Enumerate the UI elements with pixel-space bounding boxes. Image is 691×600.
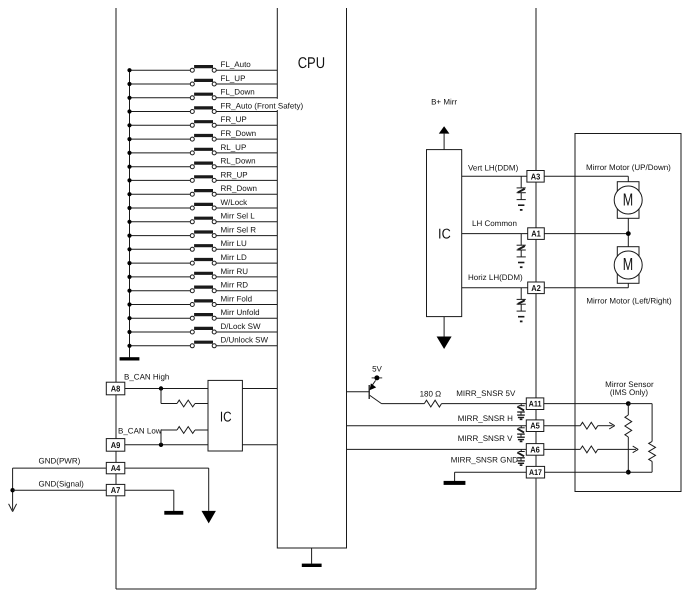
wire A3 to motor 1 — [544, 176, 628, 181]
twist symbol (A11) — [517, 404, 525, 420]
IC U2 (CAN transceiver) box — [208, 380, 242, 451]
svg-text:Vert LH(DDM): Vert LH(DDM) — [468, 163, 519, 172]
junction bus-RL_Down — [127, 165, 131, 169]
svg-text:FR_UP: FR_UP — [221, 115, 247, 124]
svg-text:A7: A7 — [111, 485, 121, 495]
wire Mirr RU row — [130, 276, 278, 278]
module box (DDM) left edge — [115, 8, 117, 589]
svg-text:MIRR_SNSR 5V: MIRR_SNSR 5V — [456, 389, 516, 398]
svg-text:FL_UP: FL_UP — [221, 74, 246, 83]
wire A6 into sensor — [544, 448, 581, 450]
svg-text:A1: A1 — [531, 229, 541, 239]
junction bus-FL_UP — [127, 82, 131, 86]
junction bus-Mirr Unfold — [127, 316, 131, 320]
wire FL_Down row — [130, 97, 278, 99]
junction bus-Mirr Sel L — [127, 220, 131, 224]
connector pin A6 — [526, 444, 544, 456]
wire IC to A3 (Vert LH) — [462, 175, 527, 177]
switch FR_Down — [190, 136, 216, 142]
junction bus-FR_Auto (Front Safety) — [127, 109, 131, 113]
wire A2 to motor 2 — [544, 283, 628, 288]
module box (DDM) right edge — [535, 8, 537, 589]
switch FL_Down — [190, 94, 216, 100]
svg-text:Mirr Unfold: Mirr Unfold — [221, 308, 260, 317]
wire RR_Down row — [130, 193, 278, 195]
wire branch to resistor (high) — [161, 389, 208, 404]
wire Mirr Sel L row — [130, 221, 278, 223]
junction bus-W/Lock — [127, 206, 131, 210]
svg-text:Mirr RU: Mirr RU — [221, 267, 249, 276]
wire A17 to sensor ground — [455, 472, 527, 481]
svg-text:A11: A11 — [529, 400, 542, 409]
svg-text:A9: A9 — [111, 440, 121, 450]
svg-text:A3: A3 — [531, 171, 541, 181]
potentiometer R-V (vertical) — [625, 404, 632, 473]
svg-text:M: M — [623, 254, 633, 274]
switch bus wire (left common) — [129, 70, 131, 357]
wire sensor top branch — [628, 404, 652, 442]
wire A5 into sensor — [544, 425, 581, 427]
svg-text:Mirr LD: Mirr LD — [221, 253, 247, 262]
svg-text:CPU: CPU — [298, 55, 325, 72]
wire RL_UP row — [130, 152, 278, 154]
svg-text:W/Lock: W/Lock — [221, 198, 249, 207]
wire FR_UP row — [130, 124, 278, 126]
wire IC to CPU (high) — [242, 388, 277, 390]
wire CPU to A5 (MIRR_SNSR H) — [347, 425, 527, 427]
wire CPU to 5V switch — [347, 391, 370, 393]
junction bus-D/Unlock SW — [127, 344, 131, 348]
svg-text:IC: IC — [438, 226, 451, 242]
CPU U1 box — [277, 8, 346, 548]
svg-text:A2: A2 — [531, 283, 541, 293]
wire D/Lock SW row — [130, 331, 278, 333]
ground symbol (sensor) — [444, 481, 466, 485]
wire Mirr RD row — [130, 290, 278, 292]
switch W/Lock — [190, 204, 216, 210]
svg-text:5V: 5V — [372, 365, 382, 374]
switch RL_Down — [190, 163, 216, 169]
svg-text:Mirr LU: Mirr LU — [221, 239, 247, 248]
wire Mirr LD row — [130, 262, 278, 264]
junction bus-Mirr LD — [127, 261, 131, 265]
svg-text:A17: A17 — [529, 468, 542, 477]
twist symbol (A5) — [517, 426, 525, 442]
switch Mirr RU — [190, 273, 216, 279]
switch Mirr Sel R — [190, 232, 216, 238]
junction B_CAN Low — [159, 443, 163, 447]
switch FR_Auto (Front Safety) — [190, 108, 216, 114]
connector pin A8 — [106, 382, 125, 395]
svg-text:A6: A6 — [530, 444, 540, 454]
svg-text:D/Lock SW: D/Lock SW — [221, 322, 261, 331]
connector pin A11 — [526, 398, 544, 410]
svg-text:FL_Down: FL_Down — [221, 88, 255, 97]
wire IC to A1 (LH Common) — [462, 233, 528, 235]
svg-text:D/Unlock SW: D/Unlock SW — [221, 336, 269, 345]
wire Mirr LU row — [130, 248, 278, 250]
svg-text:180 Ω: 180 Ω — [420, 390, 442, 399]
svg-text:Mirror Motor (UP/Down): Mirror Motor (UP/Down) — [586, 163, 671, 172]
switch Mirr LD — [190, 260, 216, 266]
wire RR_UP row — [130, 179, 278, 181]
ground symbol (CPU) — [302, 564, 322, 567]
junction sensor GND node — [626, 470, 631, 475]
net label FR_Auto (Front Safety) — [276, 99, 304, 110]
switch Mirr Unfold — [190, 315, 216, 321]
connector pin A17 — [526, 466, 544, 478]
wire W/Lock row — [130, 207, 278, 209]
svg-text:IC: IC — [220, 410, 232, 426]
wire IC to A2 (Horiz LH) — [462, 287, 528, 289]
connector pin A2 — [528, 282, 545, 294]
svg-text:B+ Mirr: B+ Mirr — [431, 98, 457, 107]
junction motors common — [626, 231, 631, 236]
wire FR_Down row — [130, 138, 278, 140]
junction bus-RL_UP — [127, 151, 131, 155]
svg-text:(IMS Only): (IMS Only) — [610, 388, 649, 397]
junction left ground rail — [10, 488, 14, 492]
ground symbol (switch bus) — [120, 357, 140, 360]
wire sensor bottom branch — [628, 471, 652, 473]
wiper arrow V — [598, 446, 638, 453]
wire motor1 to motor2 — [627, 218, 629, 246]
junction bus-FL_Down — [127, 96, 131, 100]
connector pin A9 — [106, 439, 125, 452]
svg-text:Mirror Motor (Left/Right): Mirror Motor (Left/Right) — [586, 297, 672, 306]
wire 5V diagonal to sensor supply — [370, 395, 527, 403]
svg-text:MIRR_SNSR GND: MIRR_SNSR GND — [451, 456, 518, 465]
svg-text:RL_Down: RL_Down — [221, 157, 256, 166]
svg-text:RL_UP: RL_UP — [221, 143, 247, 152]
5V tap bar — [368, 385, 370, 399]
svg-text:GND(Signal): GND(Signal) — [39, 480, 85, 489]
wire A7 to left ground rail — [13, 489, 107, 491]
CPU ground lead wire — [311, 548, 313, 564]
resistor 180 ohm — [424, 400, 441, 407]
junction bus-FL_Auto — [127, 68, 131, 72]
ground arrow (left, open) — [9, 504, 17, 512]
wire RL_Down row — [130, 166, 278, 168]
switch FL_Auto — [190, 67, 216, 73]
svg-text:Mirr Fold: Mirr Fold — [221, 294, 253, 303]
svg-text:Horiz LH(DDM): Horiz LH(DDM) — [468, 273, 523, 282]
wire D/Unlock SW row — [130, 345, 278, 347]
svg-text:Mirr RD: Mirr RD — [221, 281, 249, 290]
wire A8 to IC (B_CAN High) — [125, 388, 208, 390]
svg-text:M: M — [623, 190, 633, 210]
power symbol 5V — [370, 365, 383, 391]
svg-text:MIRR_SNSR V: MIRR_SNSR V — [458, 434, 513, 443]
wire Mirr Sel R row — [130, 235, 278, 237]
wire A9 to IC (B_CAN Low) — [125, 444, 208, 446]
junction bus-Mirr Sel R — [127, 234, 131, 238]
twist symbol (A6) — [517, 449, 525, 465]
junction bus-Mirr Fold — [127, 302, 131, 306]
junction bus-FR_Down — [127, 137, 131, 141]
svg-text:A8: A8 — [111, 384, 121, 394]
switch D/Unlock SW — [190, 342, 216, 348]
connector pin A7 — [106, 484, 125, 495]
junction bus-Mirr LU — [127, 247, 131, 251]
junction sensor 5V node — [626, 401, 631, 406]
wire Mirr Unfold row — [130, 317, 278, 319]
chassis ground arrow (filled) — [202, 511, 216, 524]
switch RR_Down — [190, 191, 216, 197]
wire FL_UP row — [130, 83, 278, 85]
junction bus-Mirr RD — [127, 289, 131, 293]
switch FL_UP — [190, 80, 216, 86]
motor M1 (up/down) — [614, 182, 642, 219]
switch FR_UP — [190, 122, 216, 128]
svg-text:FR_Auto (Front Safety): FR_Auto (Front Safety) — [221, 101, 304, 110]
wire A4 to left ground rail — [13, 468, 107, 510]
wire IC to CPU (low) — [242, 444, 277, 446]
module box (DDM) bottom edge — [116, 588, 536, 590]
ground arrow (IC driver, filled) — [437, 317, 452, 349]
twist symbol (Vert LH) — [517, 176, 526, 210]
wire Mirr Fold row — [130, 304, 278, 306]
svg-text:Mirr Sel R: Mirr Sel R — [221, 226, 257, 235]
motor M2 (left/right) — [614, 247, 642, 284]
resistor (CAN high termination) — [177, 400, 195, 407]
mirror assembly box — [575, 134, 681, 492]
ground symbol (signal) — [164, 511, 183, 515]
resistor (H wiper series) — [580, 422, 598, 429]
svg-text:RR_Down: RR_Down — [221, 184, 257, 193]
wire A1 to motor junction — [544, 233, 628, 235]
wire FR_Auto (Front Safety) row — [130, 111, 278, 113]
junction bus-RR_Down — [127, 192, 131, 196]
svg-text:FR_Down: FR_Down — [221, 129, 257, 138]
junction bus-Mirr RU — [127, 275, 131, 279]
power symbol B+ Mirr — [431, 98, 457, 150]
resistor (CAN low termination) — [177, 427, 195, 434]
connector pin A3 — [527, 171, 544, 183]
switch RL_UP — [190, 149, 216, 155]
svg-text:A5: A5 — [530, 421, 540, 431]
connector pin A5 — [526, 420, 544, 432]
wire A4 to chassis ground — [125, 468, 209, 511]
resistor (V wiper series) — [580, 446, 598, 453]
switch Mirr RD — [190, 287, 216, 293]
svg-text:Mirr Sel L: Mirr Sel L — [221, 212, 256, 221]
switch RR_UP — [190, 177, 216, 183]
svg-text:MIRR_SNSR H: MIRR_SNSR H — [458, 414, 513, 423]
connector pin A1 — [528, 228, 545, 240]
IC U3 (mirror driver) box — [427, 150, 462, 317]
twist symbol (LH Common) — [517, 234, 526, 268]
junction bus-D/Lock SW — [127, 330, 131, 334]
switch Mirr LU — [190, 246, 216, 252]
svg-text:B_CAN High: B_CAN High — [124, 373, 169, 382]
junction B_CAN High — [159, 386, 163, 390]
svg-text:GND(PWR): GND(PWR) — [39, 456, 81, 465]
svg-text:B_CAN Low: B_CAN Low — [118, 426, 162, 435]
svg-text:A4: A4 — [111, 463, 121, 473]
junction bus-RR_UP — [127, 178, 131, 182]
switch Mirr Sel L — [190, 218, 216, 224]
wire CPU to A6 (MIRR_SNSR V) — [347, 448, 527, 450]
wire A7 to signal ground — [125, 490, 174, 511]
svg-text:LH Common: LH Common — [472, 219, 517, 228]
connector pin A4 — [106, 462, 125, 473]
switch Mirr Fold — [190, 301, 216, 307]
wire A17 to sensor node — [545, 471, 629, 473]
junction bus-FR_UP — [127, 123, 131, 127]
wire FL_Auto row — [130, 69, 278, 71]
svg-text:FL_Auto: FL_Auto — [221, 60, 252, 69]
potentiometer R-H (vertical) — [649, 441, 656, 472]
wire A11 to sensor node — [544, 403, 629, 405]
twist symbol (Horiz LH) — [517, 288, 526, 322]
switch D/Lock SW — [190, 328, 216, 334]
wiper arrow H — [598, 422, 615, 429]
wire branch to resistor (low) — [161, 430, 208, 445]
svg-text:RR_UP: RR_UP — [221, 170, 248, 179]
